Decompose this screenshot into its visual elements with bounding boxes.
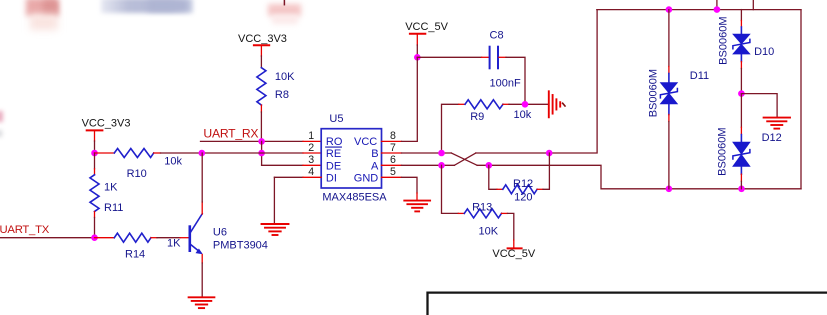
svg-text:R12: R12 — [513, 178, 533, 190]
svg-text:D11: D11 — [690, 70, 709, 82]
node dot R12 bottom-left — [486, 162, 493, 169]
ground (emitter) — [189, 297, 215, 308]
power symbol VCC_3V3 (left) — [82, 118, 131, 153]
diode D12 BS0060M — [717, 94, 782, 189]
svg-text:B: B — [371, 148, 378, 160]
ground (D10/D12 mid) — [764, 118, 790, 129]
left edge clipped net label mark — [0, 111, 3, 122]
svg-text:RO: RO — [326, 136, 343, 148]
svg-text:A: A — [371, 160, 379, 172]
svg-text:U5: U5 — [329, 113, 343, 125]
svg-text:3: 3 — [308, 154, 314, 166]
svg-text:10K: 10K — [275, 71, 295, 83]
svg-text:R14: R14 — [125, 248, 145, 260]
wire stub clipped at top edge — [283, 0, 285, 5]
wire lower row to bus — [477, 165, 801, 189]
svg-text:C8: C8 — [490, 30, 504, 42]
svg-text:10k: 10k — [164, 156, 182, 168]
node dot D11 top — [666, 6, 673, 13]
node dot UART_TX/R11/R14 — [91, 234, 98, 241]
ground (sideways, R9/C8) — [549, 91, 560, 117]
svg-text:DE: DE — [326, 160, 341, 172]
blurred label blob top-left pink — [26, 0, 58, 16]
svg-text:1: 1 — [308, 130, 314, 142]
wire node to R14 — [95, 237, 115, 239]
node dot row2 x261 — [258, 150, 265, 157]
wire protection box top — [597, 9, 801, 11]
wire stub to top edge B — [752, 0, 754, 10]
op-amp U5 MAX485ESA body — [321, 113, 387, 204]
node dot A/R13 — [438, 162, 445, 169]
svg-text:6: 6 — [390, 154, 396, 166]
resistor R12 — [489, 153, 550, 203]
node dot row1 — [258, 138, 265, 145]
svg-text:VCC_5V: VCC_5V — [492, 248, 535, 260]
svg-text:100nF: 100nF — [490, 78, 521, 90]
svg-text:VCC: VCC — [354, 136, 377, 148]
wire R8 to UART_RX node — [260, 105, 262, 112]
ground (DI) — [262, 224, 289, 235]
svg-text:D10: D10 — [754, 46, 774, 58]
wire UART_TX row — [0, 237, 95, 239]
wire pin8 VCC — [382, 140, 402, 142]
blurred label blob top blue-grey — [101, 0, 193, 13]
wire protection box right — [800, 10, 802, 189]
wire crossover B to lower — [451, 153, 477, 165]
blurred net label above VCC_3V3 — [268, 4, 301, 16]
wire stub to top edge A — [716, 0, 718, 10]
wire R10 to collector node to pin2 — [154, 152, 161, 154]
resistor R13 — [442, 165, 514, 247]
ground (pin5) — [404, 201, 430, 212]
svg-text:5: 5 — [390, 166, 396, 178]
wire upper row to box — [476, 10, 597, 153]
transistor U6 PMBT3904 — [190, 214, 268, 255]
wire row3 DE — [262, 164, 303, 166]
node dot VCC3V3/R10/R11 — [91, 150, 98, 157]
node dot D12 bottom — [738, 186, 745, 193]
wire pin5 GND — [382, 176, 402, 178]
resistor R9 — [442, 100, 549, 153]
svg-text:GND: GND — [354, 173, 379, 185]
svg-text:R9: R9 — [470, 111, 484, 123]
resistor R11 — [90, 153, 123, 238]
svg-text:D12: D12 — [762, 132, 782, 144]
resistor R10 — [114, 149, 182, 181]
wire pin6 A — [382, 164, 402, 166]
power symbol VCC_3V3 (top, for R8) — [238, 33, 287, 68]
node dot D11 bottom — [666, 186, 673, 193]
svg-text:4: 4 — [308, 166, 314, 178]
svg-text:RE: RE — [326, 148, 341, 160]
node dot VCC_5V — [414, 54, 421, 61]
svg-text:VCC_5V: VCC_5V — [405, 21, 448, 33]
svg-text:U6: U6 — [213, 226, 227, 238]
wire collector up — [201, 202, 203, 214]
svg-text:BS0060M: BS0060M — [647, 69, 659, 117]
wire vertical tie rows1-3 — [261, 141, 263, 165]
wire row4 DI with ground — [274, 176, 303, 178]
wire R14 to base — [151, 237, 157, 239]
svg-text:VCC_3V3: VCC_3V3 — [238, 33, 287, 45]
node dot top stub — [714, 6, 721, 13]
svg-text:R11: R11 — [104, 202, 123, 214]
wire emitter down — [201, 255, 203, 264]
svg-text:R8: R8 — [275, 89, 289, 101]
svg-text:2: 2 — [308, 142, 314, 154]
diode D10 BS0060M — [718, 10, 775, 94]
diode D11 BS0060M — [647, 10, 709, 189]
svg-text:R10: R10 — [127, 168, 147, 180]
svg-text:UART_TX: UART_TX — [0, 224, 50, 236]
svg-text:MAX485ESA: MAX485ESA — [322, 192, 387, 204]
wire crossover A to upper — [454, 153, 475, 165]
svg-text:BS0060M: BS0060M — [717, 127, 729, 175]
power symbol VCC_5V (top) — [405, 21, 448, 58]
svg-text:UART_RX: UART_RX — [203, 126, 258, 140]
wire VCC node to R10 — [95, 152, 115, 154]
capacitor C8 — [417, 30, 525, 105]
power symbol VCC_5V (bottom) — [492, 248, 535, 260]
wire pin7 B — [382, 152, 402, 154]
svg-text:8: 8 — [390, 130, 396, 142]
wire row1 RO — [201, 140, 304, 142]
svg-text:VCC_3V3: VCC_3V3 — [82, 118, 131, 130]
svg-text:10k: 10k — [514, 109, 532, 121]
svg-text:DI: DI — [326, 173, 337, 185]
node dot collector row2 — [199, 150, 206, 157]
node dot R9/C8/gnd — [522, 101, 529, 108]
node dot B/R9 — [438, 150, 445, 157]
svg-text:PMBT3904: PMBT3904 — [213, 239, 268, 251]
svg-text:7: 7 — [390, 142, 396, 154]
node dot between D10/D12 — [738, 90, 745, 97]
svg-text:120: 120 — [514, 191, 532, 203]
svg-text:10K: 10K — [479, 225, 499, 237]
sheet border (title block) — [428, 293, 827, 315]
wire to mid ground — [741, 94, 777, 117]
svg-text:1K: 1K — [104, 181, 118, 193]
svg-text:BS0060M: BS0060M — [718, 16, 730, 64]
svg-text:R13: R13 — [472, 201, 492, 213]
svg-text:1K: 1K — [167, 237, 181, 249]
node dot R12 top — [546, 150, 553, 157]
resistor R8 — [257, 68, 295, 105]
resistor R14 — [114, 233, 181, 260]
